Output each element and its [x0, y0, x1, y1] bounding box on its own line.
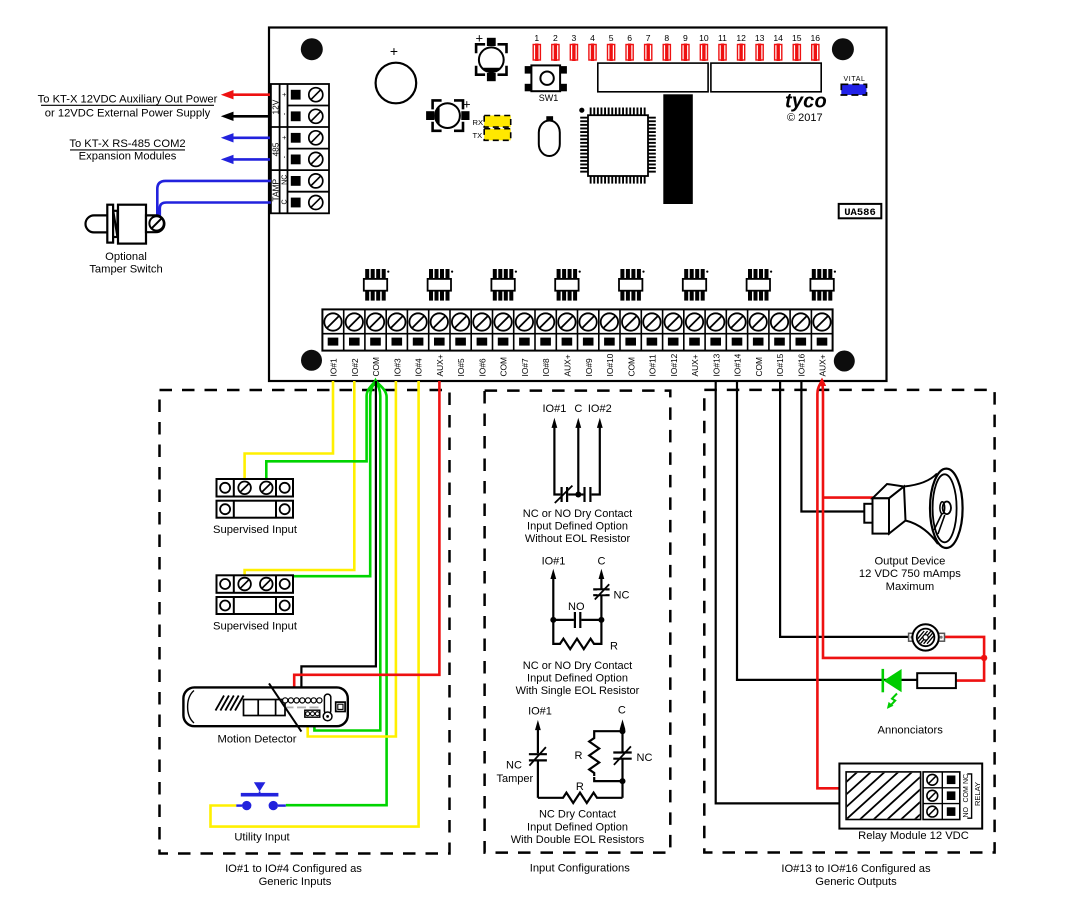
label UA586	[839, 204, 882, 218]
svg-text:2: 2	[553, 33, 558, 43]
wire IO#15 black to buzzer	[780, 381, 909, 637]
wire IO#4 yellow to utility input	[211, 381, 419, 827]
pushbutton SW1	[525, 66, 567, 91]
svg-text:RELAY: RELAY	[973, 782, 982, 806]
motion detector middle block	[244, 700, 286, 716]
wire IO#13 black to relay module	[716, 381, 840, 803]
svg-text:NC: NC	[614, 590, 630, 602]
annunciator resistor	[917, 673, 956, 688]
wire 12V+ red arrow	[233, 93, 270, 96]
svg-text:AUX+: AUX+	[690, 354, 700, 376]
svg-text:3: 3	[572, 33, 577, 43]
wire AUX red right leg to buzzer junction	[822, 381, 984, 658]
svg-text:Tamper: Tamper	[496, 773, 533, 785]
svg-text:COM: COM	[626, 357, 636, 377]
annunciator LED triangle	[884, 669, 902, 692]
svg-text:IO#16: IO#16	[796, 353, 806, 376]
motion detector lower terminal block	[305, 710, 320, 717]
jumper resistor network RN7	[747, 269, 773, 301]
svg-text:IO#5: IO#5	[456, 358, 466, 376]
svg-text:IO#1: IO#1	[542, 403, 566, 415]
diagram 1: NC contact	[560, 487, 562, 502]
wire IO#2 yellow to supervised input 2	[245, 381, 355, 578]
wire COM green 1 to supervised input 1	[266, 381, 375, 482]
wire AUX red arrowhead	[818, 378, 826, 387]
svg-text:tyco: tyco	[785, 91, 827, 113]
svg-text:7: 7	[646, 33, 651, 43]
svg-text:Input Defined Option: Input Defined Option	[527, 672, 628, 684]
jumper resistor network RN2	[428, 269, 454, 301]
output device horn: bell mouth	[930, 469, 963, 548]
svg-text:Input Defined Option: Input Defined Option	[527, 521, 628, 533]
motion detector thermistor	[324, 694, 330, 714]
svg-text:To KT-X 12VDC Auxiliary Out Po: To KT-X 12VDC Auxiliary Out Power	[38, 94, 218, 106]
svg-text:Generic Outputs: Generic Outputs	[815, 876, 897, 888]
wire AUX red left leg to relay module	[817, 381, 839, 788]
svg-text:C: C	[574, 403, 582, 415]
svg-text:12V: 12V	[271, 99, 281, 114]
buzzer M1	[912, 624, 938, 650]
wire tamper NC blue	[157, 181, 271, 218]
terminal COM (21)	[748, 309, 767, 376]
LED 5	[608, 45, 615, 61]
svg-text:IO#1: IO#1	[542, 555, 566, 567]
svg-text:IO#4: IO#4	[414, 358, 424, 376]
crystal Y1	[546, 116, 553, 122]
wire COM green 3 to motion detector	[314, 381, 380, 731]
wire COM black to motion detector	[301, 381, 376, 695]
svg-text:NO: NO	[568, 601, 585, 613]
terminal COM (9)	[493, 309, 512, 376]
connector terminal pin square	[291, 155, 301, 165]
terminal AUX+ (12)	[556, 309, 575, 376]
connector terminal screw	[309, 174, 323, 188]
svg-text:11: 11	[718, 33, 727, 43]
terminal AUX+ (18)	[684, 309, 703, 376]
wire AUX red to motion detector	[294, 381, 439, 695]
diagram 3: parallel R branch	[594, 731, 622, 735]
LED 8	[663, 45, 670, 61]
svg-text:+: +	[279, 136, 288, 140]
svg-text:COM: COM	[754, 357, 764, 377]
motion detector hatch	[216, 696, 244, 711]
terminal IO#11 (16)	[641, 309, 660, 376]
terminal IO#6 (8)	[471, 309, 490, 376]
capacitor C2	[476, 38, 506, 81]
svg-text:6: 6	[627, 33, 632, 43]
junction dot red	[981, 655, 987, 661]
wire IO#1 yellow to supervised input 1	[245, 381, 333, 482]
svg-text:+: +	[463, 97, 471, 112]
relay module box	[839, 764, 982, 829]
relay module terminal block	[923, 772, 960, 820]
optional tamper switch	[86, 205, 165, 244]
svg-text:+: +	[279, 92, 288, 96]
utility input push button	[241, 782, 279, 810]
LED 16	[812, 45, 819, 61]
motion detector tiny text	[285, 707, 319, 709]
svg-text:IO#2: IO#2	[588, 403, 612, 415]
LED 7	[645, 45, 652, 61]
LED 3	[570, 45, 577, 61]
svg-text:IO#14: IO#14	[733, 353, 743, 376]
LED 13	[756, 45, 763, 61]
relay bracket	[967, 774, 971, 818]
svg-text:8: 8	[664, 33, 669, 43]
svg-text:Motion Detector: Motion Detector	[218, 734, 297, 746]
wire IO#3 yellow to motion detector	[308, 381, 396, 737]
terminal AUX+ (6)	[429, 309, 448, 376]
svg-text:14: 14	[773, 33, 783, 43]
diagram 2: wire C	[599, 569, 605, 579]
svg-text:4: 4	[590, 33, 595, 43]
diagram 1: wire IO#1	[552, 418, 558, 428]
output device horn: body box	[873, 484, 905, 498]
terminal IO#9 (13)	[578, 309, 597, 376]
svg-text:Tamper Switch: Tamper Switch	[89, 264, 162, 276]
output device horn: flare	[904, 474, 937, 487]
terminal IO#8 (11)	[535, 309, 554, 376]
svg-text:Relay Module 12 VDC: Relay Module 12 VDC	[858, 830, 969, 842]
capacitor C3	[426, 100, 469, 130]
svg-text:5: 5	[609, 33, 614, 43]
svg-text:+: +	[390, 43, 398, 59]
relay module hatched block	[846, 772, 921, 820]
svg-text:Maximum: Maximum	[886, 581, 934, 593]
terminal COM (3)	[365, 309, 384, 376]
svg-text:IO#13 to IO#16 Configured as: IO#13 to IO#16 Configured as	[781, 863, 931, 875]
motion detector body	[183, 687, 347, 726]
mounting hole bottom-right	[834, 351, 855, 372]
annunciator LED cathode bar	[881, 669, 884, 692]
svg-text:IO#3: IO#3	[392, 358, 402, 376]
connector terminal pin square	[291, 111, 301, 121]
svg-text:Optional: Optional	[105, 251, 147, 263]
diagram 2: top rail with NO contact	[553, 619, 574, 621]
diagram 3: NC contact on C	[613, 751, 631, 753]
svg-text:15: 15	[792, 33, 802, 43]
svg-text:C: C	[618, 705, 626, 717]
svg-text:AUX+: AUX+	[818, 354, 828, 376]
motion detector terminal circles	[283, 698, 322, 703]
svg-text:IO#1: IO#1	[329, 358, 339, 376]
tamper switch screw	[149, 216, 163, 230]
connector terminal pin square	[291, 90, 301, 100]
svg-text:IO#12: IO#12	[669, 353, 679, 376]
terminal IO#7 (10)	[514, 309, 533, 376]
LED 11	[719, 45, 726, 61]
connector terminal pin square	[291, 198, 301, 208]
svg-text:9: 9	[683, 33, 688, 43]
svg-text:16: 16	[811, 33, 821, 43]
svg-text:TX: TX	[473, 131, 483, 140]
diagram 2: NC contact on C	[593, 588, 609, 590]
svg-text:IO#13: IO#13	[711, 353, 721, 376]
wire IO#16 black to output device	[801, 381, 864, 512]
svg-text:Supervised Input: Supervised Input	[213, 524, 298, 536]
terminal IO#12 (17)	[663, 309, 682, 376]
svg-text:IO#15: IO#15	[775, 353, 785, 376]
relay terminal screw 3	[927, 806, 938, 817]
svg-text:or 12VDC External Power Supply: or 12VDC External Power Supply	[45, 108, 211, 120]
connector terminal pin square	[291, 176, 301, 186]
svg-text:COM: COM	[963, 786, 970, 803]
svg-text:NC or NO Dry Contact: NC or NO Dry Contact	[523, 508, 632, 520]
wire tamper C blue	[160, 203, 271, 217]
svg-text:10: 10	[699, 33, 709, 43]
diagram 3: junction dots	[620, 728, 626, 734]
svg-text:Supervised Input: Supervised Input	[213, 620, 298, 632]
terminal IO#4 (5)	[407, 309, 426, 376]
motion detector cover diagonal	[269, 683, 301, 731]
svg-text:+: +	[476, 31, 484, 46]
diagram 3: wire C	[620, 719, 626, 729]
PCB board outline	[269, 28, 887, 382]
mounting hole bottom-left	[301, 350, 322, 371]
header block 2	[711, 63, 821, 92]
dashed box: generic inputs	[160, 390, 450, 854]
svg-text:UA586: UA586	[844, 207, 876, 219]
svg-text:12: 12	[736, 33, 746, 43]
LED 1	[533, 45, 540, 61]
terminal IO#16 (23)	[790, 309, 809, 376]
diagram 2: wire IO#1	[550, 569, 556, 579]
svg-text:NC: NC	[279, 175, 288, 185]
svg-text:RX: RX	[473, 118, 484, 127]
svg-text:To KT-X RS-485 COM2: To KT-X RS-485 COM2	[69, 138, 185, 150]
svg-text:With Single EOL Resistor: With Single EOL Resistor	[516, 685, 640, 697]
diagram 3: bottom rail with resistor R	[538, 797, 560, 799]
connector terminal screw	[309, 131, 323, 145]
jumper resistor network RN5	[619, 269, 645, 301]
supervised input 2	[217, 575, 294, 614]
svg-text:With Double EOL Resistors: With Double EOL Resistors	[511, 834, 645, 846]
svg-text:R: R	[575, 750, 583, 762]
svg-text:IO#1: IO#1	[528, 705, 552, 717]
terminal IO#3 (4)	[386, 309, 405, 376]
annunciator LED emission arrow	[890, 694, 897, 706]
jumper resistor network RN4	[555, 269, 581, 301]
header block 1	[598, 63, 708, 92]
svg-text:IO#10: IO#10	[605, 353, 615, 376]
component (black vertical module)	[663, 94, 693, 204]
svg-text:Input Configurations: Input Configurations	[530, 863, 631, 875]
svg-text:Output Device: Output Device	[874, 555, 945, 567]
wire COM green 2 to supervised input 2	[266, 381, 375, 578]
diagram 2: resistor R loop	[553, 620, 557, 644]
svg-text:NC: NC	[963, 774, 970, 784]
svg-text:IO#11: IO#11	[648, 354, 658, 377]
svg-text:IO#7: IO#7	[520, 358, 530, 376]
diagram 1: junction dot C	[575, 492, 581, 498]
svg-text:Generic Inputs: Generic Inputs	[259, 876, 332, 888]
diagram 3: wire IO#1 with NC tamper contact	[535, 720, 541, 730]
svg-text:485: 485	[271, 142, 281, 156]
terminal strip TB1	[322, 309, 832, 350]
terminal IO#13 (19)	[705, 309, 724, 376]
mounting hole top-left	[301, 38, 323, 60]
svg-text:AUX+: AUX+	[563, 354, 573, 376]
wire COM green 4 to utility input	[286, 381, 387, 805]
capacitor C1 (large electrolytic)	[376, 63, 417, 104]
svg-text:IO#8: IO#8	[541, 358, 551, 376]
motion detector side tab	[336, 702, 345, 711]
jumper resistor network RN8	[810, 269, 836, 301]
svg-text:NC: NC	[637, 752, 653, 764]
svg-text:C: C	[598, 555, 606, 567]
jumper resistor network RN6	[683, 269, 709, 301]
terminal AUX+ (24)	[811, 309, 830, 376]
jumper resistor network RN1	[364, 269, 390, 301]
terminal IO#15 (22)	[769, 309, 788, 376]
diagram 2: junction dots	[550, 617, 556, 623]
connector terminal pin square	[291, 133, 301, 143]
LED 15	[793, 45, 800, 61]
LED 4	[589, 45, 596, 61]
svg-text:NC: NC	[506, 759, 522, 771]
svg-text:IO#6: IO#6	[478, 358, 488, 376]
LED 6	[626, 45, 633, 61]
svg-text:AUX+: AUX+	[435, 354, 445, 376]
connector terminal screw	[309, 88, 323, 102]
svg-text:Annonciators: Annonciators	[878, 724, 944, 736]
svg-text:© 2017: © 2017	[787, 112, 823, 124]
output device horn: driver	[934, 514, 945, 535]
svg-text:COM: COM	[371, 357, 381, 377]
LED 10	[700, 45, 707, 61]
op IC U1 (QFP microcontroller)	[579, 108, 656, 184]
terminal IO#10 (14)	[599, 309, 618, 376]
svg-text:SW1: SW1	[539, 93, 559, 103]
wire red buzzer loop to resistor	[942, 637, 984, 681]
LED 14	[775, 45, 782, 61]
terminal IO#5 (7)	[450, 309, 469, 376]
LED 9	[682, 45, 689, 61]
svg-text:Utility Input: Utility Input	[234, 831, 290, 843]
relay terminal screw 1	[927, 774, 938, 785]
terminal IO#14 (20)	[726, 309, 745, 376]
wire COM green arrowhead	[371, 378, 379, 387]
diagram 1: wire IO#2	[597, 418, 603, 428]
svg-text:13: 13	[755, 33, 765, 43]
svg-text:NC Dry Contact: NC Dry Contact	[539, 809, 616, 821]
wire 485+ blue arrow	[233, 137, 270, 140]
dashed box: generic outputs	[704, 390, 994, 853]
connector terminal screw	[309, 152, 323, 166]
svg-text:R: R	[576, 781, 584, 793]
wire 12V- black arrow	[233, 115, 270, 118]
connector terminal screw	[309, 196, 323, 210]
svg-text:IO#1 to IO#4 Configured as: IO#1 to IO#4 Configured as	[225, 863, 362, 875]
connector terminal screw	[309, 109, 323, 123]
dashed box: input configurations	[485, 391, 671, 853]
diagram 1: NO contact	[578, 493, 583, 495]
svg-text:Without EOL Resistor: Without EOL Resistor	[525, 533, 631, 545]
terminal COM (15)	[620, 309, 639, 376]
svg-text:Input Defined Option: Input Defined Option	[527, 821, 628, 833]
wire red branch to output device	[823, 496, 873, 499]
svg-text:R: R	[610, 641, 618, 653]
buzzer terminal tabs	[909, 633, 916, 641]
svg-text:IO#2: IO#2	[350, 358, 360, 376]
relay terminal screw 2	[927, 790, 938, 801]
svg-text:1: 1	[534, 33, 539, 43]
terminal IO#1 (1)	[324, 313, 341, 376]
wire 485- blue arrow	[233, 158, 270, 161]
svg-text:COM: COM	[499, 357, 509, 377]
wire IO#14 black to annunciator LED	[737, 381, 917, 680]
connector block J1 (12V/485/TAMP)	[271, 84, 329, 213]
svg-text:C: C	[279, 199, 288, 204]
terminal IO#2 (2)	[344, 309, 363, 376]
jumper resistor network RN3	[491, 269, 517, 301]
supervised input 1	[217, 479, 294, 518]
output device horn: mounting bracket	[864, 504, 872, 523]
mounting hole top-right	[832, 38, 854, 60]
LED 2	[552, 45, 559, 61]
svg-text:Expansion Modules: Expansion Modules	[79, 151, 177, 163]
svg-text:NO: NO	[963, 806, 970, 817]
diagram 1: wire C	[575, 418, 581, 428]
svg-text:VITAL: VITAL	[844, 76, 866, 83]
svg-text:12 VDC 750 mAmps: 12 VDC 750 mAmps	[859, 568, 961, 580]
LED 12	[738, 45, 745, 61]
svg-text:IO#9: IO#9	[584, 358, 594, 376]
svg-text:NC or NO Dry Contact: NC or NO Dry Contact	[523, 660, 632, 672]
